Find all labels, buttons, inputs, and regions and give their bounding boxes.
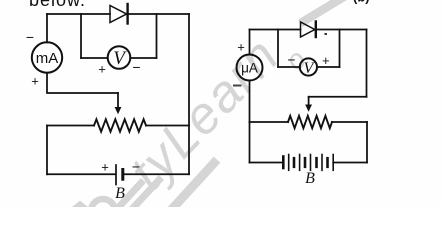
- wire: voltmeter V2 right lead: [317, 66, 340, 68]
- wire: voltmeter V1 left lead: [81, 57, 108, 59]
- svg-text:μA: μA: [241, 61, 258, 76]
- watermark: [72, 0, 342, 223]
- rheostat R2: [288, 116, 332, 128]
- microammeter uA: [237, 55, 263, 81]
- wire: rheostat R2 right lead: [332, 121, 367, 123]
- speck: [325, 33, 328, 35]
- svg-text:+: +: [31, 74, 39, 89]
- svg-text:below.: below.: [29, 0, 86, 10]
- wire: right circuit bottom right: [333, 162, 367, 164]
- wire: voltmeter V1 branch left vertical: [80, 14, 82, 58]
- wire: right circuit top right vertical: [366, 30, 368, 97]
- svg-text:B: B: [305, 170, 315, 187]
- wire: rheostat R2 left lead: [250, 121, 289, 123]
- wire: bottom left: [47, 173, 115, 175]
- voltmeter V1: [108, 46, 131, 69]
- wire: right circuit left vertical lower: [249, 122, 251, 163]
- wire: left circuit top, cathode side: [128, 13, 189, 15]
- battery B (left circuit): [116, 165, 123, 185]
- wire: right circuit right vertical lower: [366, 122, 368, 163]
- wire: left vertical to milliammeter: [46, 14, 48, 42]
- svg-text:−: −: [132, 159, 140, 175]
- svg-text:+: +: [237, 40, 245, 55]
- svg-text:+: +: [101, 160, 109, 175]
- wire: right circuit top left segment: [250, 29, 301, 31]
- wire: voltmeter V1 right lead: [130, 57, 156, 59]
- wire: rheostat R1 left lead: [47, 125, 94, 127]
- rheostat R2 wiper arrow: [305, 97, 312, 112]
- svg-text:−: −: [26, 29, 34, 45]
- battery B (right circuit, 5 cells): [283, 155, 333, 171]
- label: microammeter minus: [234, 85, 241, 87]
- diode D2: [301, 22, 316, 38]
- milliammeter mA: [32, 42, 62, 72]
- wire: voltmeter V2 left lead: [278, 66, 300, 68]
- wire: left circuit top, anode side: [47, 13, 110, 15]
- wire: milliammeter to wiper jog: [47, 73, 118, 93]
- wire: jog to wiper: [309, 96, 367, 98]
- diode D1: [110, 4, 128, 24]
- rheostat R1: [94, 119, 146, 131]
- svg-text:−: −: [132, 59, 140, 75]
- wire: rheostat R1 right lead: [146, 125, 189, 127]
- wire: voltmeter V1 branch right vertical: [156, 14, 158, 58]
- wire: voltmeter V2 branch left vertical: [277, 30, 279, 68]
- svg-text:B: B: [115, 185, 125, 202]
- svg-text:(b): (b): [353, 0, 370, 4]
- svg-text:+: +: [98, 62, 106, 77]
- svg-text:mA: mA: [36, 50, 59, 67]
- voltmeter V2: [300, 58, 317, 76]
- svg-text:−: −: [287, 52, 295, 68]
- wire: right circuit top right segment: [316, 29, 367, 31]
- wire: right vertical: [188, 14, 190, 174]
- wire: right circuit bottom left: [250, 162, 284, 164]
- wire: left vertical to microammeter: [249, 30, 251, 55]
- svg-text:+: +: [322, 53, 330, 68]
- wire: bottom right: [124, 173, 189, 175]
- rheostat R1 wiper arrow: [115, 93, 122, 114]
- wire: microammeter to rheostat R2 left end: [249, 81, 251, 123]
- wire: voltmeter V2 branch right vertical: [339, 30, 341, 68]
- wire: left vertical lower: [46, 126, 48, 175]
